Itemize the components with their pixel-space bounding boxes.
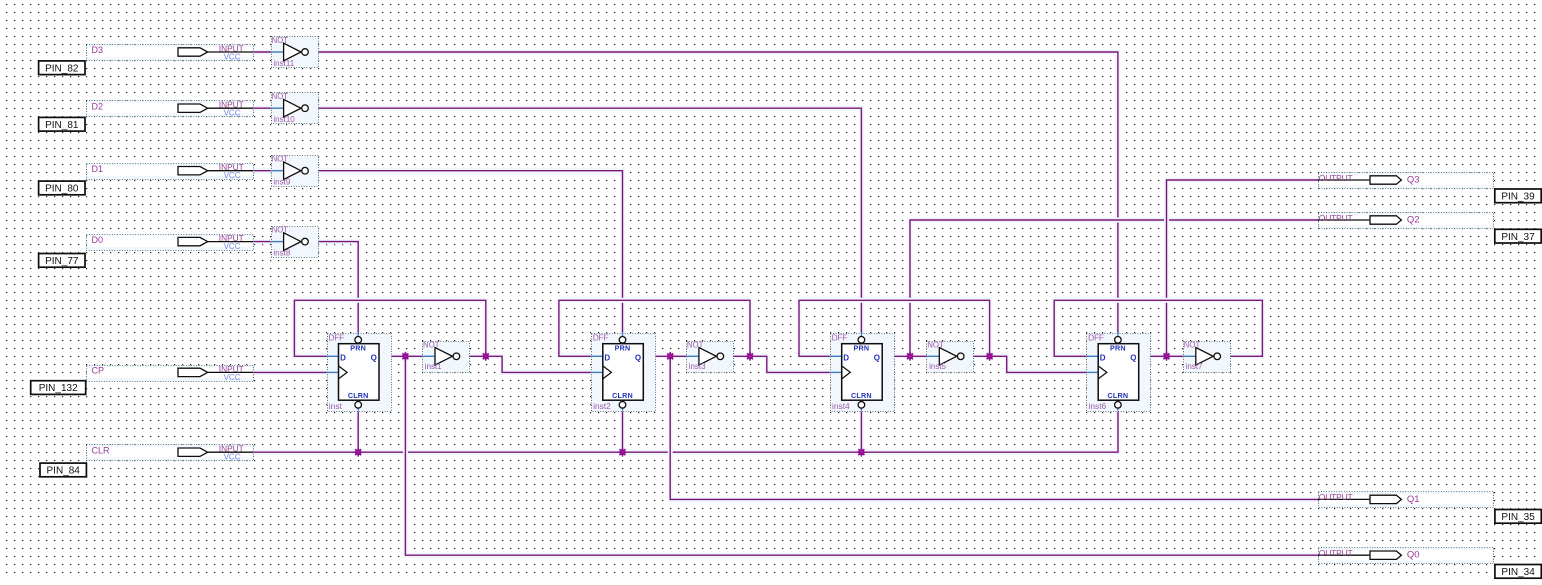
pin assignment label PIN_132 [31, 381, 86, 395]
D flip-flop inst (DFF) [327, 332, 392, 411]
svg-text:NOT: NOT [272, 92, 289, 101]
svg-text:PRN: PRN [350, 344, 366, 353]
svg-text:inst: inst [329, 401, 343, 411]
svg-text:D: D [1100, 354, 1106, 363]
wire net Q1N: inst3 out to DFF inst4 clock [723, 356, 830, 372]
svg-text:CLR: CLR [92, 445, 111, 455]
svg-text:Q: Q [874, 354, 880, 363]
wire net /D3 from inst11 to PRN of inst6 [308, 52, 1118, 333]
svg-text:inst2: inst2 [593, 401, 611, 411]
svg-text:Q2: Q2 [1407, 214, 1420, 225]
svg-text:D: D [843, 354, 849, 363]
svg-text:inst11: inst11 [273, 59, 294, 68]
svg-text:PIN_81: PIN_81 [45, 120, 79, 131]
wire net Q2N: inst5 out to DFF inst6 clock [963, 356, 1086, 372]
pin assignment label PIN_77 [39, 254, 85, 268]
NOT gate inst11 [271, 36, 319, 68]
wire net Q0: DFF inst Q to NOT inst1 and OUTPUT Q0 [379, 356, 1318, 555]
NOT gate inst9 [271, 155, 319, 187]
svg-text:NOT: NOT [423, 340, 440, 349]
svg-text:PRN: PRN [854, 344, 870, 353]
svg-text:PRN: PRN [1110, 344, 1126, 353]
NOT gate inst1 [422, 340, 469, 372]
output pin Q1 (OUTPUT symbol) [1318, 492, 1494, 508]
svg-text:CP: CP [92, 366, 105, 376]
pin assignment label PIN_82 [39, 61, 85, 75]
wire net Q2: DFF inst4 Q to NOT inst5 and OUTPUT Q2 [882, 220, 1318, 356]
wire net CLR bus to CLRN pins [253, 411, 1118, 453]
wire feedback Q3N: inst7 out to DFF inst6 D [1054, 300, 1262, 356]
pin assignment label PIN_84 [40, 463, 86, 477]
output pin Q0 (OUTPUT symbol) [1318, 548, 1494, 564]
svg-text:D: D [604, 354, 610, 363]
svg-text:D0: D0 [92, 235, 104, 245]
svg-text:inst3: inst3 [689, 362, 706, 371]
junction CLR to inst4 CLRN [857, 448, 866, 457]
NOT gate inst8 [271, 226, 319, 258]
pin assignment label PIN_35 [1495, 510, 1541, 524]
svg-text:PIN_39: PIN_39 [1501, 192, 1535, 203]
wire net /D1 from inst9 to PRN of inst2 [308, 171, 623, 333]
svg-text:D1: D1 [92, 164, 104, 174]
NOT gate inst7 [1183, 340, 1231, 372]
svg-text:PIN_77: PIN_77 [45, 256, 79, 267]
svg-text:CLRN: CLRN [851, 391, 872, 400]
NOT gate inst10 [271, 92, 319, 124]
junction DFF inst2 Q node [666, 352, 675, 361]
D flip-flop inst4 (DFF) [830, 332, 895, 411]
NOT gate inst5 [927, 340, 974, 372]
svg-text:inst5: inst5 [929, 362, 946, 371]
svg-text:D2: D2 [92, 101, 104, 111]
wire net Q0N: inst1 out to DFF inst2 clock [459, 356, 591, 372]
svg-text:DFF: DFF [593, 332, 609, 342]
wire net Q1: DFF inst2 Q to NOT inst3 and OUTPUT Q1 [643, 356, 1318, 499]
pin assignment label PIN_34 [1495, 565, 1541, 579]
svg-text:OUTPUT: OUTPUT [1319, 173, 1353, 183]
svg-text:VCC: VCC [224, 373, 241, 382]
input pin D0 (INPUT/VCC symbol) [87, 233, 254, 251]
svg-text:Q1: Q1 [1407, 494, 1420, 505]
svg-text:NOT: NOT [272, 36, 289, 45]
svg-text:NOT: NOT [927, 340, 944, 349]
pin assignment label PIN_80 [39, 181, 85, 195]
svg-text:OUTPUT: OUTPUT [1319, 213, 1353, 223]
wire net /D2 from inst10 to PRN of inst4 [308, 108, 862, 333]
svg-text:CLRN: CLRN [348, 391, 369, 400]
output pin Q2 (OUTPUT symbol) [1318, 213, 1494, 229]
svg-text:DFF: DFF [1088, 332, 1104, 342]
svg-text:inst9: inst9 [273, 178, 290, 187]
svg-text:D: D [340, 354, 346, 363]
svg-text:DFF: DFF [328, 332, 344, 342]
svg-text:Q0: Q0 [1407, 550, 1420, 561]
wire feedback Q1N to DFF inst2 D [559, 300, 750, 356]
wire net Q3: DFF inst6 Q to NOT inst7 and OUTPUT Q3 [1139, 180, 1318, 356]
svg-text:VCC: VCC [224, 242, 241, 251]
svg-text:Q: Q [371, 354, 377, 363]
input pin D1 (INPUT/VCC symbol) [87, 162, 254, 180]
svg-text:PIN_35: PIN_35 [1501, 512, 1535, 523]
junction CLR to inst2 CLRN [618, 448, 627, 457]
svg-text:inst4: inst4 [832, 401, 850, 411]
wire CP input to DFF inst clock [253, 370, 327, 375]
svg-text:inst1: inst1 [425, 362, 442, 371]
svg-text:CLRN: CLRN [1108, 391, 1129, 400]
wire D0 input to NOT inst8 [253, 239, 271, 244]
svg-text:OUTPUT: OUTPUT [1319, 548, 1353, 558]
svg-text:PIN_82: PIN_82 [45, 63, 79, 74]
svg-text:NOT: NOT [687, 340, 704, 349]
wire D1 input to NOT inst9 [253, 168, 271, 173]
svg-text:NOT: NOT [272, 155, 289, 164]
svg-text:PIN_80: PIN_80 [45, 184, 79, 195]
pin assignment label PIN_81 [39, 117, 85, 131]
svg-text:Q: Q [635, 354, 641, 363]
svg-text:VCC: VCC [224, 109, 241, 118]
junction DFF inst6 Q node [1162, 352, 1171, 361]
svg-text:D3: D3 [92, 45, 104, 55]
junction Q2N feedback node [985, 352, 994, 361]
input pin CP (INPUT/VCC symbol) [87, 364, 254, 382]
svg-text:VCC: VCC [224, 171, 241, 180]
junction DFF inst4 Q node [906, 352, 915, 361]
svg-text:Q3: Q3 [1407, 174, 1420, 185]
NOT gate inst3 [686, 340, 733, 372]
svg-text:PIN_84: PIN_84 [47, 466, 81, 477]
svg-text:PIN_37: PIN_37 [1501, 232, 1535, 243]
junction CLR to inst CLRN [354, 448, 363, 457]
svg-text:PIN_132: PIN_132 [39, 383, 78, 394]
D flip-flop inst2 (DFF) [591, 332, 656, 411]
wire feedback Q0N to DFF inst D [294, 300, 485, 356]
wire net /D0 from inst8 to PRN of inst [308, 242, 359, 333]
junction DFF inst Q node [401, 352, 410, 361]
wire D2 input to NOT inst10 [253, 106, 271, 111]
pin assignment label PIN_39 [1495, 189, 1541, 203]
svg-text:DFF: DFF [832, 332, 848, 342]
svg-text:Q: Q [1130, 354, 1136, 363]
junction Q1N feedback node [746, 352, 755, 361]
wire feedback Q2N to DFF inst4 D [799, 300, 990, 356]
svg-text:VCC: VCC [224, 52, 241, 61]
svg-text:inst7: inst7 [1186, 362, 1203, 371]
junction Q0N feedback node [481, 352, 490, 361]
svg-text:inst8: inst8 [273, 248, 290, 257]
output pin Q3 (OUTPUT symbol) [1318, 173, 1494, 189]
svg-text:CLRN: CLRN [612, 391, 633, 400]
svg-text:OUTPUT: OUTPUT [1319, 492, 1353, 502]
svg-text:NOT: NOT [272, 226, 289, 235]
D flip-flop inst6 (DFF) [1086, 332, 1150, 411]
svg-text:PRN: PRN [615, 344, 631, 353]
input pin CLR (INPUT/VCC symbol) [87, 444, 254, 462]
svg-text:VCC: VCC [224, 453, 241, 462]
pin assignment label PIN_37 [1495, 229, 1541, 243]
input pin D2 (INPUT/VCC symbol) [87, 100, 254, 118]
wire D3 input to NOT inst11 [253, 50, 271, 55]
svg-text:PIN_34: PIN_34 [1501, 567, 1535, 578]
svg-text:inst6: inst6 [1089, 401, 1107, 411]
svg-text:NOT: NOT [1184, 340, 1201, 349]
input pin D3 (INPUT/VCC symbol) [87, 43, 254, 61]
svg-text:inst10: inst10 [273, 115, 295, 124]
